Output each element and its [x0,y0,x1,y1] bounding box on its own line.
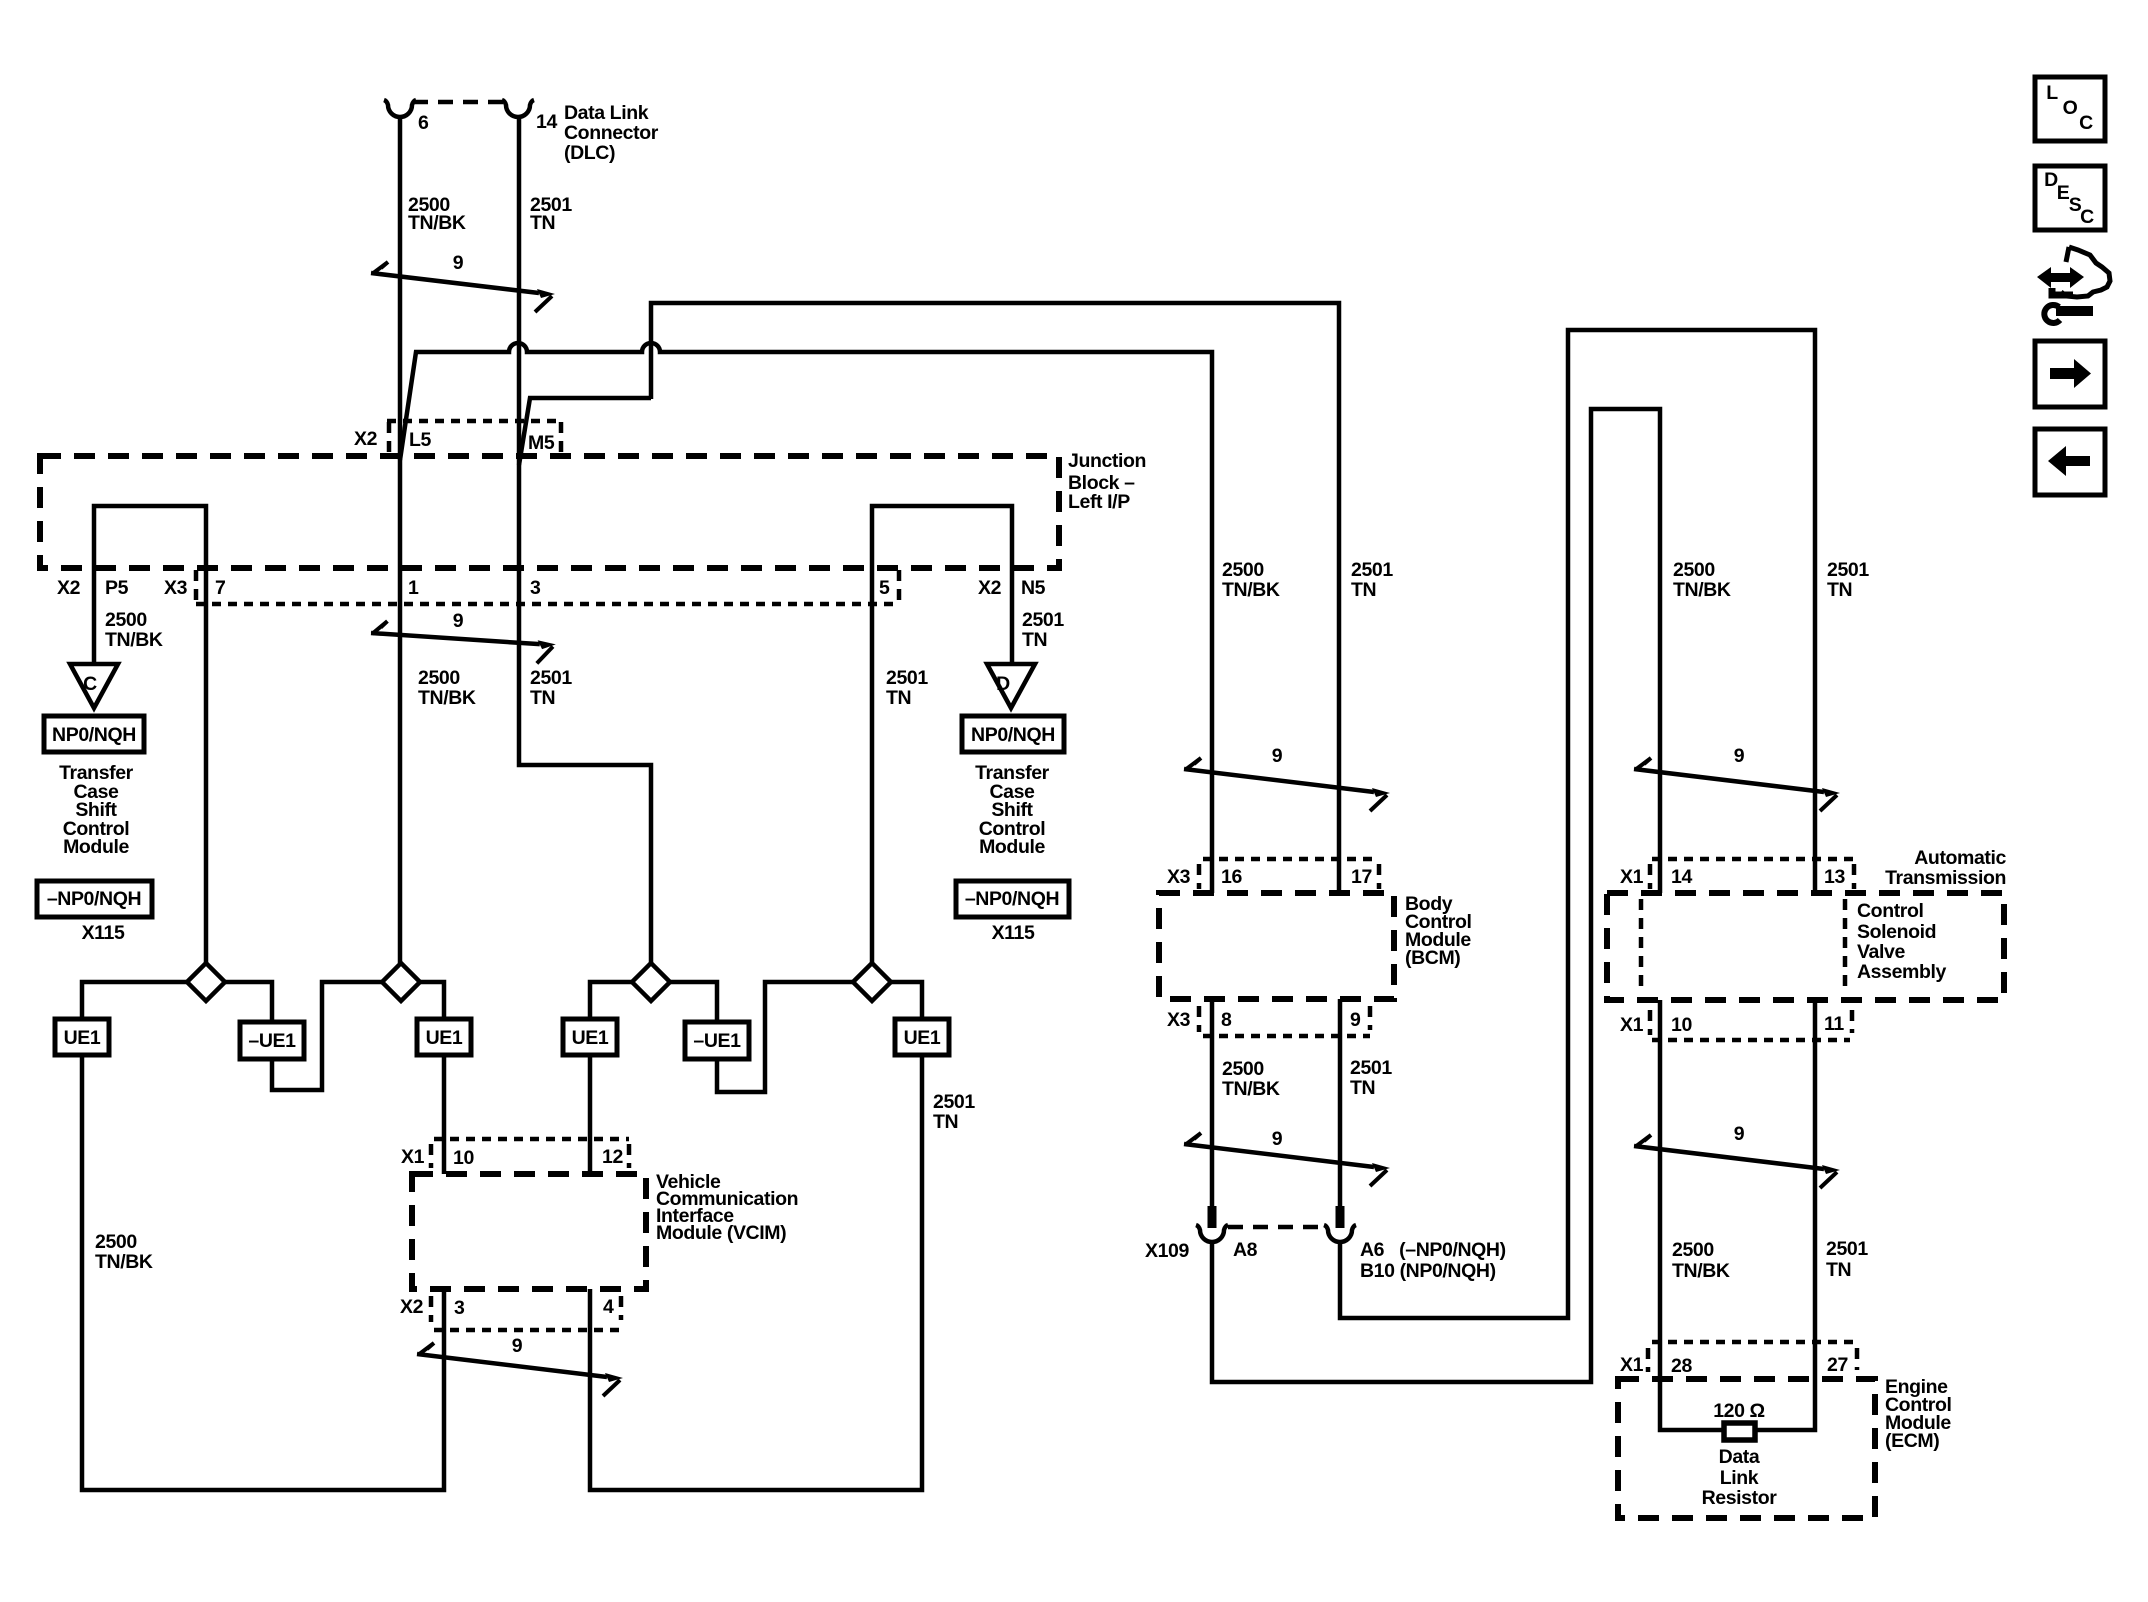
svg-text:X109: X109 [1145,1240,1189,1262]
svg-text:2501: 2501 [886,667,928,689]
svg-text:Assembly: Assembly [1857,961,1946,983]
connector solenoid X1 14/13 row [1652,857,1853,862]
svg-text:UE1: UE1 [426,1027,463,1049]
box UE1 no.2 [417,1019,471,1055]
svg-text:TN/BK: TN/BK [1672,1260,1730,1282]
junction block bus P5 to pin 7, wires to triangle C and diamond D1 [94,506,206,963]
svg-text:2501: 2501 [1351,559,1393,581]
wire 2500 TN/BK branch from L5 to BCM pin 16 with hops [400,343,1212,893]
svg-text:2501: 2501 [1826,1238,1868,1260]
svg-text:Control: Control [1857,900,1924,922]
svg-text:9: 9 [1272,745,1283,767]
svg-text:Module: Module [979,836,1045,858]
icon vehicle wrench: vehicle outline [2061,247,2110,297]
harness marker 9 wires (below junction block) [370,612,556,672]
wire 2500 TN/BK from DLC pin 6 down to splice diamond D2 [398,117,403,963]
harness marker 9 wires (above BCM) [1184,758,1390,811]
svg-text:2501: 2501 [1827,559,1869,581]
svg-text:Module: Module [63,836,129,858]
wire BCM pin 9 down to X109 pin A6 [1338,999,1343,1208]
wire D4 right branch to UE1 [891,982,922,1019]
svg-text:27: 27 [1827,1354,1848,1376]
svg-text:14: 14 [536,111,557,133]
wire -UE1 loop up to D4 left branch [717,982,853,1092]
box UE1 no.3 [563,1019,617,1055]
box -UE1 no.2 [685,1022,749,1059]
svg-text:10: 10 [453,1147,474,1169]
svg-text:NP0/NQH: NP0/NQH [52,724,136,746]
svg-text:TN: TN [1350,1077,1375,1099]
svg-text:Automatic: Automatic [1914,847,2006,869]
wire D3 right branch to -UE1 [670,982,717,1022]
svg-text:Valve: Valve [1857,941,1905,963]
svg-text:TN/BK: TN/BK [1222,1078,1280,1100]
svg-text:UE1: UE1 [572,1027,609,1049]
wire 2500 from X109 A8 around to solenoid pin 14 [1212,409,1660,1382]
svg-text:11: 11 [1824,1013,1844,1035]
svg-text:Transmission: Transmission [1885,867,2006,889]
svg-text:X2: X2 [400,1296,424,1318]
svg-text:5: 5 [879,577,890,599]
module VCIM dashed box [412,1174,646,1289]
icon vehicle wrench: wrench handle [2056,306,2093,316]
svg-text:(DLC): (DLC) [564,142,615,164]
wire 2500 TN/BK loop from UE1 down around to VCIM X2 pin 3 [82,1055,444,1490]
svg-text:TN/BK: TN/BK [408,212,466,234]
icon vehicle wrench: wrench open end [2044,305,2060,323]
wire BCM pin 8 down to X109 pin A8 [1210,999,1215,1208]
resistor 120 ohm body [1724,1423,1755,1440]
svg-text:TN: TN [1022,629,1047,651]
svg-text:Data Link: Data Link [564,102,649,124]
svg-text:14: 14 [1671,866,1692,888]
icon next arrow box [2035,341,2105,407]
svg-text:C: C [83,673,97,695]
svg-text:2500: 2500 [418,667,460,689]
svg-text:L: L [2046,82,2058,104]
harness marker 9 wires (VCIM X2) [417,1343,623,1396]
wire solenoid pin 10 and pin 11 down to data link resistor [1660,1000,1815,1430]
box -UE1 no.1 [240,1022,304,1059]
svg-text:2500: 2500 [1672,1239,1714,1261]
icon DESC box [2035,166,2105,230]
svg-text:–NP0/NQH: –NP0/NQH [965,888,1059,910]
svg-text:X3: X3 [1167,866,1191,888]
svg-text:TN/BK: TN/BK [1222,579,1280,601]
off-page triangle D [987,664,1035,708]
svg-text:8: 8 [1221,1009,1232,1031]
svg-text:Left I/P: Left I/P [1068,491,1130,513]
svg-text:TN: TN [530,212,555,234]
splice diamond D3 [632,963,670,1001]
svg-text:L5: L5 [409,429,432,451]
svg-text:9: 9 [512,1335,523,1357]
svg-text:X3: X3 [1167,1009,1191,1031]
svg-text:10: 10 [1671,1014,1692,1036]
box NP0/NQH (right) [962,716,1064,752]
svg-text:9: 9 [1734,1123,1745,1145]
module BCM dashed box [1159,893,1394,999]
terminal pin A6 stub [1336,1206,1345,1228]
svg-text:X2: X2 [354,428,378,450]
module control solenoid valve assembly dashed box [1607,893,2004,1000]
svg-text:M5: M5 [528,432,555,454]
svg-text:TN: TN [1827,579,1852,601]
svg-text:X2: X2 [57,577,81,599]
svg-text:B10 (NP0/NQH): B10 (NP0/NQH) [1360,1260,1496,1282]
svg-text:UE1: UE1 [64,1027,101,1049]
svg-text:13: 13 [1824,866,1845,888]
svg-text:(BCM): (BCM) [1405,947,1460,969]
splice diamond D2 [382,963,420,1001]
svg-text:TN: TN [886,687,911,709]
splice diamond D1 [187,963,225,1001]
svg-text:TN: TN [933,1111,958,1133]
svg-text:2501: 2501 [530,667,572,689]
svg-text:NP0/NQH: NP0/NQH [971,724,1055,746]
svg-text:9: 9 [453,252,464,274]
connector VCIM X2 row [429,1296,434,1322]
svg-text:X1: X1 [401,1146,425,1168]
connector X3 pin row dashes [194,570,199,604]
svg-text:2500: 2500 [1673,559,1715,581]
junction block dashed box [40,456,1059,568]
svg-text:C: C [2080,206,2094,228]
connector VCIM X1 row [434,1137,629,1142]
svg-text:–NP0/NQH: –NP0/NQH [47,888,141,910]
terminal pin A8 stub [1208,1206,1217,1228]
svg-text:2501: 2501 [1350,1057,1392,1079]
svg-text:Solenoid: Solenoid [1857,921,1936,943]
connector BCM X3 8/9 row [1197,1006,1202,1032]
svg-text:3: 3 [530,577,541,599]
svg-text:2500: 2500 [95,1231,137,1253]
svg-text:6: 6 [418,112,429,134]
terminal cup A6 [1324,1225,1356,1242]
svg-text:4: 4 [603,1296,614,1318]
connector BCM X3 16/17 row [1203,857,1377,862]
box NP0/NQH (left) [44,716,144,752]
svg-text:Resistor: Resistor [1702,1487,1778,1509]
svg-text:(ECM): (ECM) [1885,1430,1939,1452]
svg-text:A6 (–NP0/NQH): A6 (–NP0/NQH) [1360,1239,1506,1261]
icon LOC box [2035,77,2105,141]
svg-text:C: C [2079,112,2093,134]
svg-text:–UE1: –UE1 [248,1030,296,1052]
module ECM dashed box [1618,1379,1875,1518]
wire D1 left branch to UE1 [82,982,187,1019]
junction block bus N5 to pin 5, wires to triangle D and diamond D4 [872,506,1012,963]
connector solenoid X1 10/11 row [1648,1010,1653,1035]
wire -UE1 loop up to D2 left branch [272,982,382,1090]
svg-text:N5: N5 [1021,577,1046,599]
svg-text:TN/BK: TN/BK [1673,579,1731,601]
box UE1 no.1 [55,1019,109,1055]
svg-text:D: D [996,673,1010,695]
box UE1 no.4 [895,1019,949,1055]
svg-text:Module (VCIM): Module (VCIM) [656,1222,786,1244]
svg-text:P5: P5 [105,577,129,599]
wire 2501 TN from DLC pin 14 down, elbow right to splice diamond D3 [519,117,651,963]
svg-text:X3: X3 [164,577,188,599]
connector boundary dashes inside solenoid box [1639,899,1644,993]
svg-text:O: O [2063,97,2078,119]
svg-text:X115: X115 [992,922,1035,944]
wire D2 right branch to UE1 [420,982,444,1019]
svg-text:X115: X115 [82,922,125,944]
terminal cup A8 [1196,1225,1228,1242]
icon vehicle wrench: lower bar [2052,288,2073,295]
wire 2501 from X109 A6 around to solenoid pin 13 [1340,330,1815,1318]
wire UE1 to VCIM X1 pin 12 [588,1055,593,1174]
connector DLC dashed link [413,100,505,105]
wire D3 left branch to UE1 [590,982,632,1019]
svg-text:120 Ω: 120 Ω [1713,1400,1765,1422]
svg-text:9: 9 [1350,1009,1361,1031]
wire D1 right branch to -UE1 [225,982,272,1022]
svg-text:TN/BK: TN/BK [95,1251,153,1273]
icon back arrow box [2035,429,2105,495]
box -NP0/NQH (left) [37,881,152,917]
svg-text:TN: TN [1826,1259,1851,1281]
svg-text:2500: 2500 [1222,1058,1264,1080]
svg-text:2501: 2501 [1022,609,1064,631]
svg-text:Connector: Connector [564,122,659,144]
svg-text:9: 9 [1272,1128,1283,1150]
svg-text:Junction: Junction [1068,450,1146,472]
svg-text:X1: X1 [1620,1014,1644,1036]
svg-text:TN: TN [530,687,555,709]
icon vehicle wrench: double arrow [2037,267,2084,288]
wire 2501 TN loop from UE1 down around to VCIM X2 pin 4 [590,1055,922,1490]
svg-text:UE1: UE1 [904,1027,941,1049]
wire UE1 to VCIM X1 pin 10 [442,1055,447,1174]
connector X2 L5/M5 row top dashes [387,419,561,424]
harness marker 9 wires (DLC) [371,262,555,312]
harness marker 9 wires (below solenoid) [1634,1135,1840,1188]
svg-text:TN/BK: TN/BK [418,687,476,709]
svg-text:X1: X1 [1620,1354,1644,1376]
box -NP0/NQH (right) [956,881,1069,917]
svg-text:1: 1 [408,577,419,599]
svg-text:X1: X1 [1620,866,1644,888]
svg-text:3: 3 [454,1297,465,1319]
svg-text:12: 12 [602,1146,623,1168]
svg-text:2500: 2500 [105,609,147,631]
svg-text:X2: X2 [978,577,1002,599]
connector X109 dashed link [1228,1225,1325,1230]
off-page triangle C [70,664,118,708]
svg-text:7: 7 [215,577,225,599]
wire 2501 TN branch from M5 to BCM pin 17 [519,303,1339,893]
svg-text:16: 16 [1221,866,1242,888]
connector terminal DLC pin 6 cup [384,100,416,117]
svg-text:2501: 2501 [933,1091,975,1113]
splice diamond D4 [853,963,891,1001]
harness marker 9 wires (below BCM) [1184,1133,1390,1186]
harness marker 9 wires (above solenoid) [1634,758,1840,811]
svg-text:–UE1: –UE1 [693,1030,741,1052]
svg-text:Link: Link [1720,1467,1759,1489]
svg-text:9: 9 [1734,745,1745,767]
svg-text:2500: 2500 [1222,559,1264,581]
svg-text:9: 9 [453,610,464,632]
svg-text:Data: Data [1719,1446,1760,1468]
connector terminal DLC pin 14 cup [502,100,534,117]
svg-text:TN: TN [1351,579,1376,601]
connector ECM X1 row [1652,1340,1856,1345]
svg-text:28: 28 [1671,1355,1692,1377]
svg-text:A8: A8 [1233,1239,1258,1261]
svg-text:TN/BK: TN/BK [105,629,163,651]
svg-text:17: 17 [1351,866,1372,888]
